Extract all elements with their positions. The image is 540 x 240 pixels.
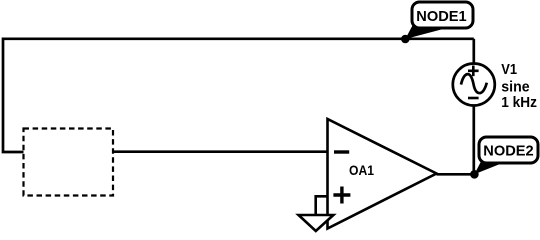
svg-text:NODE1: NODE1 [416, 8, 466, 25]
svg-text:OA1: OA1 [349, 162, 374, 178]
svg-text:1 kHz: 1 kHz [501, 94, 537, 111]
svg-text:V1: V1 [501, 61, 517, 78]
svg-text:NODE2: NODE2 [483, 143, 533, 160]
